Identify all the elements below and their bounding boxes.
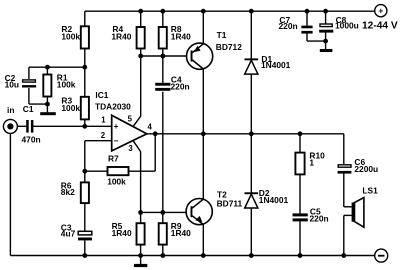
svg-text:100k: 100k [107, 176, 126, 186]
svg-text:BD712: BD712 [216, 42, 242, 52]
svg-text:100k: 100k [61, 103, 80, 113]
svg-text:BD711: BD711 [217, 199, 243, 209]
svg-text:TDA2030: TDA2030 [95, 102, 131, 112]
svg-text:1R40: 1R40 [111, 32, 131, 42]
svg-text:4: 4 [148, 123, 153, 132]
svg-text:1: 1 [101, 115, 106, 124]
svg-text:220n: 220n [279, 21, 298, 31]
svg-text:1R40: 1R40 [171, 32, 191, 42]
svg-text:1000u: 1000u [335, 21, 359, 31]
svg-text:5: 5 [128, 115, 133, 124]
svg-text:−: − [114, 137, 119, 146]
svg-text:100k: 100k [61, 32, 80, 42]
svg-text:1N4001: 1N4001 [261, 60, 291, 70]
svg-text:2200u: 2200u [354, 164, 378, 174]
svg-text:12-44 V: 12-44 V [362, 20, 398, 31]
svg-text:8k2: 8k2 [61, 187, 75, 197]
svg-text:R7: R7 [108, 153, 119, 163]
svg-text:1R40: 1R40 [171, 228, 191, 238]
svg-text:+: + [378, 7, 383, 16]
svg-text:470n: 470n [22, 135, 41, 145]
svg-text:3: 3 [128, 144, 133, 153]
svg-text:T1: T1 [217, 30, 227, 40]
svg-text:1N4001: 1N4001 [259, 195, 289, 205]
svg-text:10u: 10u [5, 80, 19, 90]
svg-text:220n: 220n [310, 214, 329, 224]
svg-text:2: 2 [101, 131, 106, 140]
svg-text:220n: 220n [171, 82, 190, 92]
svg-text:1R40: 1R40 [112, 228, 132, 238]
svg-text:1: 1 [309, 157, 314, 167]
svg-text:+: + [114, 122, 119, 131]
svg-text:4u7: 4u7 [61, 229, 76, 239]
svg-text:100k: 100k [57, 80, 76, 90]
svg-text:IC1: IC1 [95, 90, 108, 100]
svg-text:in: in [7, 105, 14, 115]
svg-text:C1: C1 [23, 104, 34, 114]
svg-text:LS1: LS1 [362, 185, 378, 195]
